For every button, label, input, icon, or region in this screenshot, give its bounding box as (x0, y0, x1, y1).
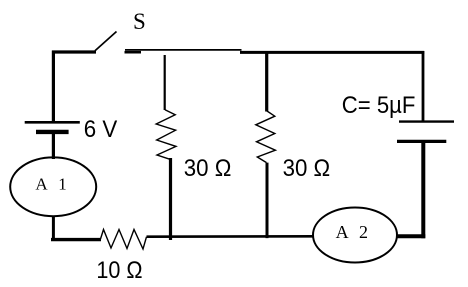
switch S label (133, 9, 146, 34)
wire: A1 to bottom-left node (52, 216, 55, 241)
svg-text:10 Ω: 10 Ω (96, 257, 142, 284)
svg-text:30 Ω: 30 Ω (283, 155, 331, 182)
resistor R2 30 ohm zigzag (156, 110, 176, 160)
ammeter A1 (10, 157, 96, 216)
svg-text:S: S (133, 9, 146, 34)
wire: right vertical upper (top bus to capacitor) (422, 51, 425, 123)
ammeter A2 (313, 208, 397, 263)
wire: branch 1 lower (thick) (169, 158, 172, 240)
battery B1 positive plate (long) (25, 121, 80, 124)
resistor R1 10 ohm zigzag (101, 230, 147, 250)
resistor R1 value label 10 Ohm (96, 257, 142, 284)
resistor R2 value label 30 Ohm (184, 155, 232, 182)
battery B1 negative plate (short thick) (36, 130, 69, 134)
wire: battery to ammeter A1 (52, 133, 55, 159)
wire: branch 2 upper (thick) (265, 52, 268, 112)
ammeter A2 label (336, 222, 368, 242)
wire: bottom middle thin segment (147, 235, 315, 238)
capacitor value label C= 5uF (342, 92, 416, 119)
wire: branch 2 lower (thin) (266, 163, 269, 239)
svg-text:A2: A2 (336, 222, 368, 242)
capacitor C1 bottom plate (397, 140, 446, 143)
wire: left vertical switch to battery (52, 51, 55, 123)
wire: bottom-left thick segment (51, 238, 101, 241)
wire: top bus thick right segment (240, 51, 424, 54)
svg-text:30 Ω: 30 Ω (184, 155, 232, 182)
wire: top bus thin left segment (125, 49, 242, 51)
wire: A2 to right vertical (396, 234, 425, 238)
wire: switch feed from left vertical (52, 50, 96, 53)
svg-text:C= 5µF: C= 5µF (342, 92, 416, 119)
ammeter A1 label (35, 174, 66, 193)
switch right contact stub (125, 51, 142, 54)
wire: right vertical lower (capacitor to A2) (421, 143, 425, 238)
svg-text:6 V: 6 V (84, 116, 118, 143)
svg-text:A1: A1 (35, 174, 66, 193)
resistor R3 value label 30 Ohm (283, 155, 331, 182)
resistor R3 30 ohm zigzag (256, 111, 276, 163)
wire: branch 1 upper (thin) (164, 55, 166, 110)
capacitor C1 top plate (399, 120, 454, 122)
switch S blade (open diagonal) (95, 32, 117, 51)
battery value label 6 V (84, 116, 118, 143)
